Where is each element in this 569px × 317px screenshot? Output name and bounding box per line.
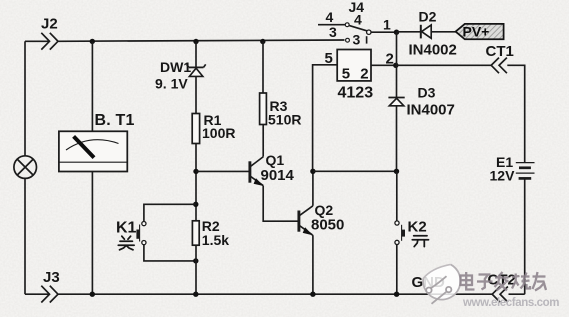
- watermark hanzi dian-zi-fa-shao-you: [461, 272, 547, 291]
- svg-text:J3: J3: [43, 269, 60, 286]
- wire top rail: [58, 40, 344, 41]
- diode D2: [397, 9, 457, 59]
- meter B.T1: [59, 112, 135, 172]
- node K1 top: [193, 202, 198, 207]
- node pin2 / CT1 row: [393, 63, 398, 68]
- connector CT1: [486, 43, 514, 73]
- svg-text:12V: 12V: [490, 168, 516, 184]
- resistor R1: [192, 112, 235, 144]
- node top rail / meter branch: [90, 39, 95, 44]
- wire Q2 collector: [312, 171, 314, 206]
- net label PV+: [456, 24, 504, 40]
- svg-text:2: 2: [360, 66, 368, 83]
- svg-text:3: 3: [353, 32, 361, 48]
- svg-text:www.elecfans.com: www.elecfans.com: [462, 297, 559, 309]
- wire left rail: [24, 41, 26, 155]
- svg-text:DW1: DW1: [160, 59, 191, 75]
- node bottom rail / R2: [193, 292, 198, 297]
- wire Q1 base: [196, 170, 249, 172]
- fa: [495, 276, 509, 278]
- node K1 bottom: [193, 258, 198, 263]
- wire D3 to K2 node: [396, 106, 398, 172]
- dian: [461, 276, 473, 286]
- connector J3: [41, 269, 59, 303]
- zener diode DW1: [155, 59, 206, 92]
- svg-text:IN4002: IN4002: [409, 42, 457, 59]
- wire DW1 branch: [195, 42, 197, 68]
- wire R3 top: [262, 42, 264, 94]
- zi: [479, 273, 491, 275]
- pushbutton K2: [395, 171, 427, 294]
- wire CT1 row: [396, 64, 491, 66]
- wire CT1 to right rail: [507, 65, 524, 162]
- svg-text:K2: K2: [408, 218, 427, 235]
- wire right rail lower: [524, 178, 526, 294]
- svg-text:3: 3: [329, 24, 337, 40]
- node Q2 collector / pin5 rail: [310, 169, 315, 174]
- svg-text:9014: 9014: [261, 167, 295, 184]
- svg-text:K1: K1: [116, 219, 137, 236]
- svg-text:510R: 510R: [268, 112, 301, 128]
- svg-text:4: 4: [354, 12, 362, 28]
- svg-text:1.5k: 1.5k: [202, 232, 229, 248]
- label K1 hanzi guan: [118, 236, 134, 250]
- node R1 / Q1 base: [193, 169, 198, 174]
- svg-text:5: 5: [342, 66, 350, 83]
- node top rail / DW1 branch: [193, 39, 198, 44]
- lamp: [14, 156, 37, 179]
- svg-text:D2: D2: [419, 9, 437, 25]
- svg-text:Q1: Q1: [266, 152, 285, 168]
- wire 4123 pin5 down to collector node: [313, 65, 338, 172]
- wire bottom rail: [25, 293, 49, 295]
- wire top rail left of J2: [25, 40, 49, 42]
- label K2 hanzi kai: [412, 236, 428, 247]
- watermark logo circle: [423, 264, 460, 303]
- resistor R3: [260, 93, 302, 128]
- node bottom rail / K2: [394, 292, 399, 297]
- wire meter branch upper: [91, 41, 93, 131]
- svg-text:B. T1: B. T1: [95, 112, 135, 129]
- wire collector node to K2 rail: [313, 170, 397, 172]
- IC U1 4123: [325, 50, 394, 102]
- wire J4 pin1 to node: [371, 31, 397, 33]
- svg-text:CT1: CT1: [486, 43, 514, 60]
- node bottom rail / Q2 emitter: [310, 292, 315, 297]
- svg-text:D3: D3: [418, 85, 436, 101]
- connector J2: [41, 16, 58, 50]
- wire Q2 emitter to bottom rail: [311, 235, 314, 294]
- svg-text:9. 1V: 9. 1V: [155, 76, 188, 92]
- svg-text:PV+: PV+: [463, 24, 490, 40]
- svg-text:4123: 4123: [338, 85, 374, 102]
- wire R2 to bottom rail: [195, 245, 197, 294]
- node pin1 / D2 / D3 rail: [394, 30, 399, 35]
- node K2 top: [394, 169, 399, 174]
- wire left rail lower: [24, 178, 26, 294]
- transistor Q2: [299, 202, 344, 235]
- svg-text:J2: J2: [41, 16, 58, 33]
- svg-text:4: 4: [326, 9, 334, 25]
- pushbutton K1: [116, 204, 196, 261]
- svg-text:8050: 8050: [311, 217, 344, 234]
- shao: [515, 274, 517, 282]
- resistor R2: [192, 218, 229, 248]
- wire R3 to Q1 collector: [262, 125, 264, 157]
- svg-text:1: 1: [383, 17, 391, 33]
- svg-text:100R: 100R: [202, 125, 235, 141]
- switch J4: [318, 0, 391, 48]
- wire 4123 pin2 to node: [371, 64, 397, 66]
- wire R1 to node: [195, 144, 197, 222]
- connector CT2: [492, 287, 508, 303]
- node bottom rail / meter branch: [90, 292, 95, 297]
- wire meter branch lower: [91, 172, 93, 295]
- transistor Q1: [250, 152, 295, 186]
- battery E1: [490, 154, 535, 184]
- wire Q1 emitter to Q2 base: [263, 186, 298, 222]
- diode D3: [388, 32, 454, 118]
- wire DW1 to R1: [195, 76, 197, 113]
- you: [533, 275, 546, 277]
- node top rail / R3: [260, 39, 265, 44]
- svg-text:IN4007: IN4007: [407, 102, 455, 119]
